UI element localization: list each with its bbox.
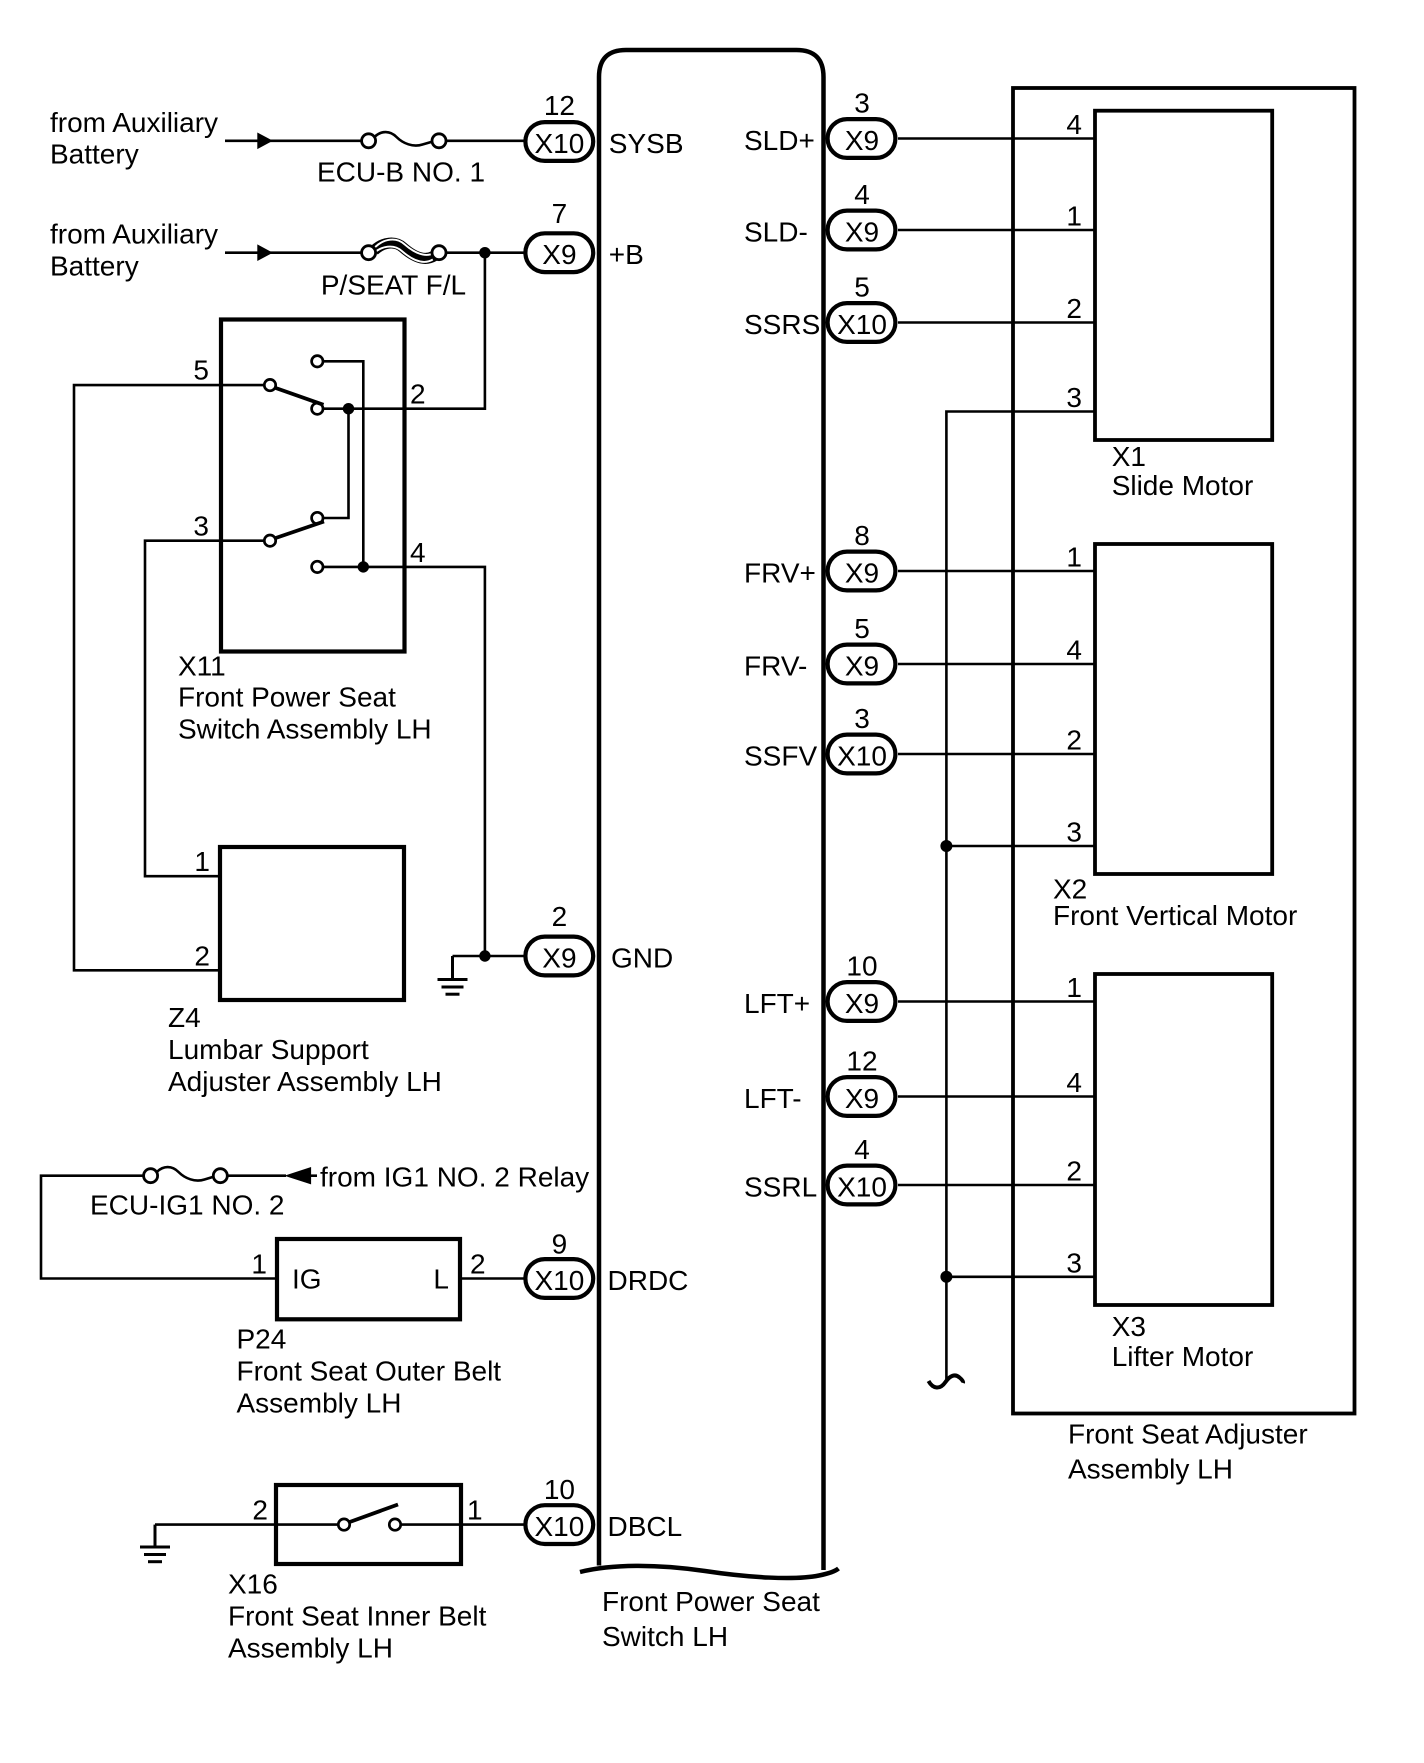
svg-text:X10: X10	[534, 1265, 584, 1296]
connector X10 pin 3 (SSFV)	[828, 703, 896, 773]
wire junction down to SW2 top contact	[323, 409, 349, 518]
node: GND junction	[479, 950, 490, 961]
ECU box: Front Power Seat Switch LH outline	[599, 50, 824, 1570]
svg-text:2: 2	[1066, 1156, 1082, 1187]
svg-text:X16: X16	[228, 1569, 278, 1600]
svg-text:L: L	[433, 1264, 449, 1295]
fusible link P/SEAT F/L	[321, 240, 466, 301]
svg-text:IG: IG	[292, 1264, 322, 1295]
svg-text:Lifter Motor: Lifter Motor	[1112, 1341, 1254, 1372]
wire SLD+ to X1 pin 4	[898, 137, 1095, 140]
svg-text:ECU-B NO. 1: ECU-B NO. 1	[317, 157, 485, 188]
svg-text:ECU-IG1 NO. 2: ECU-IG1 NO. 2	[90, 1190, 284, 1221]
svg-text:P/SEAT F/L: P/SEAT F/L	[321, 270, 466, 301]
svg-text:4: 4	[1066, 109, 1082, 140]
svg-text:4: 4	[854, 179, 870, 210]
belt box P24	[277, 1239, 460, 1319]
wire X2 pin 3 to shield rail	[946, 845, 1095, 848]
switch SW2 contacts	[264, 512, 324, 572]
svg-text:2: 2	[470, 1249, 486, 1280]
svg-text:1: 1	[467, 1495, 483, 1526]
svg-text:X9: X9	[845, 650, 879, 681]
lumbar box Z4	[220, 847, 404, 1000]
svg-text:4: 4	[1066, 1067, 1082, 1098]
connector X9 pin 5 (FRV-)	[828, 613, 896, 683]
svg-text:X10: X10	[837, 740, 887, 771]
motor box X3	[1095, 974, 1272, 1305]
svg-text:8: 8	[854, 520, 870, 551]
svg-text:2: 2	[1066, 293, 1082, 324]
svg-text:9: 9	[552, 1228, 568, 1259]
svg-text:X9: X9	[845, 988, 879, 1019]
connector X10 pin 5 (SSRS)	[828, 272, 896, 342]
svg-text:X10: X10	[534, 128, 584, 159]
svg-text:Slide Motor: Slide Motor	[1112, 470, 1254, 501]
switch SW1 contacts	[264, 356, 323, 415]
wire P24 L to DRDC	[460, 1277, 526, 1280]
label P24 Front Seat Outer Belt Assembly LH	[237, 1324, 502, 1419]
label X16 Front Seat Inner Belt Assembly LH	[228, 1569, 487, 1664]
switch box X11	[221, 320, 405, 652]
svg-text:X9: X9	[845, 557, 879, 588]
svg-text:SSFV: SSFV	[744, 740, 817, 771]
connector X10 pin 9 (DRDC)	[525, 1228, 593, 1298]
svg-text:X10: X10	[837, 1171, 887, 1202]
svg-text:Assembly LH: Assembly LH	[237, 1388, 402, 1419]
node: SW2 junction	[358, 561, 369, 572]
svg-text:Front Vertical Motor: Front Vertical Motor	[1053, 900, 1297, 931]
wire pin3 to Z4 pin1	[145, 541, 264, 877]
svg-text:X9: X9	[542, 942, 576, 973]
node: X2 pin 3 junction	[940, 840, 952, 852]
svg-text:1: 1	[1066, 542, 1082, 573]
label X1 Slide Motor	[1112, 441, 1254, 501]
svg-text:SSRS: SSRS	[744, 309, 820, 340]
svg-text:X1: X1	[1112, 441, 1146, 472]
svg-text:2: 2	[1066, 725, 1082, 756]
svg-text:+B: +B	[609, 239, 644, 270]
svg-text:X9: X9	[845, 1083, 879, 1114]
svg-text:12: 12	[544, 90, 575, 121]
label X2 Front Vertical Motor	[1053, 873, 1297, 931]
svg-text:X9: X9	[845, 216, 879, 247]
svg-text:SLD-: SLD-	[744, 216, 808, 247]
label: from Auxiliary Battery (+B feed)	[50, 219, 218, 282]
svg-text:2: 2	[252, 1495, 268, 1526]
svg-text:12: 12	[846, 1046, 877, 1077]
svg-text:5: 5	[854, 272, 870, 303]
connector X10 pin 4 (SSRL)	[828, 1134, 896, 1204]
svg-text:3: 3	[193, 511, 209, 542]
svg-text:2: 2	[194, 940, 210, 971]
connector X9 pin 2 (GND)	[525, 901, 593, 975]
fuse ECU-IG1 NO. 2	[90, 1167, 284, 1220]
adjuster assembly outer box	[1013, 88, 1355, 1414]
svg-text:DBCL: DBCL	[608, 1511, 683, 1542]
svg-text:Front Power Seat: Front Power Seat	[602, 1586, 820, 1617]
svg-text:2: 2	[410, 379, 426, 410]
arrow: feed direction	[258, 133, 272, 148]
connector X9 pin 7 (+B)	[525, 198, 593, 272]
connector X9 pin 10 (LFT+)	[828, 951, 896, 1021]
belt switch box X16	[276, 1485, 461, 1564]
svg-text:Assembly LH: Assembly LH	[228, 1633, 393, 1664]
wire: IG1 relay feed to P24 pin 1	[41, 1176, 317, 1279]
svg-text:Lumbar Support: Lumbar Support	[168, 1034, 369, 1065]
wire: shield pigtail squiggle end	[929, 1375, 964, 1387]
wire pin5 to Z4 pin2	[74, 385, 264, 970]
wire FRV- to X2 pin 4	[898, 663, 1095, 666]
arrow: from IG1 NO. 2 Relay (pointing left)	[286, 1168, 311, 1184]
svg-text:3: 3	[854, 703, 870, 734]
connector X9 pin 12 (LFT-)	[828, 1046, 896, 1116]
svg-text:3: 3	[1066, 382, 1082, 413]
svg-text:1: 1	[194, 846, 210, 877]
svg-text:7: 7	[552, 198, 568, 229]
svg-text:Front Seat Inner Belt: Front Seat Inner Belt	[228, 1601, 487, 1632]
svg-text:3: 3	[1066, 1247, 1082, 1278]
svg-text:from IG1 NO. 2 Relay: from IG1 NO. 2 Relay	[320, 1162, 589, 1193]
svg-text:3: 3	[854, 88, 870, 119]
label: from Auxiliary Battery (SYSB feed)	[50, 107, 218, 170]
wire SSRS to X1 pin 2	[898, 321, 1095, 324]
svg-text:FRV-: FRV-	[744, 650, 807, 681]
svg-text:SLD+: SLD+	[744, 125, 815, 156]
svg-text:Assembly LH: Assembly LH	[1068, 1454, 1233, 1485]
switch X16 contacts	[338, 1505, 400, 1531]
svg-text:1: 1	[1066, 972, 1082, 1003]
svg-text:LFT+: LFT+	[744, 988, 810, 1019]
svg-text:1: 1	[1066, 201, 1082, 232]
svg-text:SSRL: SSRL	[744, 1171, 817, 1202]
svg-text:Front Power Seat: Front Power Seat	[178, 682, 396, 713]
label X11 Front Power Seat Switch Assembly LH	[178, 651, 432, 745]
svg-text:X3: X3	[1112, 1311, 1146, 1342]
svg-text:DRDC: DRDC	[608, 1265, 689, 1296]
fuse ECU-B NO. 1	[317, 132, 485, 187]
wire: wavy bottom edge of ECU box	[580, 1566, 839, 1578]
svg-text:3: 3	[1066, 817, 1082, 848]
svg-text:X11: X11	[178, 651, 226, 682]
connector X9 pin 4 (SLD-)	[828, 179, 896, 249]
label Z4 Lumbar Support Adjuster Assembly LH	[168, 1002, 442, 1097]
wire SW2 bottom contact to GND rail (pin 4)	[323, 567, 485, 956]
wire X1 pin 3 to shield rail	[946, 412, 1095, 1380]
wire: ground to GND connector	[453, 955, 527, 958]
svg-text:Adjuster Assembly LH: Adjuster Assembly LH	[168, 1066, 442, 1097]
svg-text:2: 2	[552, 901, 568, 932]
svg-text:X9: X9	[845, 125, 879, 156]
label Front Seat Adjuster Assembly LH	[1068, 1419, 1308, 1485]
svg-text:X9: X9	[542, 239, 576, 270]
wire X16 pin 1 to DBCL	[401, 1523, 526, 1526]
svg-text:P24: P24	[237, 1324, 287, 1355]
wire X3 pin 3 to shield rail	[946, 1276, 1095, 1279]
svg-text:SYSB: SYSB	[609, 128, 684, 159]
svg-text:5: 5	[854, 613, 870, 644]
node: +B junction	[479, 247, 490, 258]
svg-text:Switch Assembly LH: Switch Assembly LH	[178, 714, 432, 745]
svg-text:10: 10	[846, 951, 877, 982]
wire FRV+ to X2 pin 1	[898, 570, 1095, 573]
svg-text:Front Seat Adjuster: Front Seat Adjuster	[1068, 1419, 1308, 1450]
label X3 Lifter Motor	[1112, 1311, 1254, 1372]
svg-text:GND: GND	[611, 942, 673, 973]
svg-text:5: 5	[193, 354, 209, 385]
ground symbol (GND)	[438, 956, 468, 994]
svg-text:LFT-: LFT-	[744, 1083, 802, 1114]
wire SW1 lower contact to +B rail (pin 2)	[323, 253, 485, 409]
svg-text:Front Seat Outer Belt: Front Seat Outer Belt	[237, 1356, 502, 1387]
wire SSRL to X3 pin 2	[898, 1184, 1095, 1187]
svg-text:from Auxiliary: from Auxiliary	[50, 219, 218, 250]
svg-text:Battery: Battery	[50, 250, 139, 281]
motor box X1	[1095, 111, 1272, 440]
svg-text:X10: X10	[837, 309, 887, 340]
svg-text:1: 1	[251, 1249, 267, 1280]
label: Front Power Seat Switch LH	[602, 1586, 820, 1652]
svg-text:Switch LH: Switch LH	[602, 1621, 728, 1652]
wire LFT- to X3 pin 4	[898, 1095, 1095, 1098]
svg-text:X10: X10	[534, 1511, 584, 1542]
motor box X2	[1095, 544, 1272, 874]
svg-text:Battery: Battery	[50, 139, 139, 170]
svg-text:4: 4	[410, 537, 426, 568]
node: SW1 junction	[343, 403, 354, 414]
wire SSFV to X2 pin 2	[898, 753, 1095, 756]
wire: battery feed to +B	[225, 251, 526, 254]
svg-text:10: 10	[544, 1474, 575, 1505]
connector X10 pin 12 (SYSB)	[525, 90, 593, 161]
svg-text:from Auxiliary: from Auxiliary	[50, 107, 218, 138]
wire: battery feed to SYSB	[225, 140, 526, 143]
wire: ground to X16 pin 2	[155, 1523, 339, 1526]
svg-text:4: 4	[854, 1134, 870, 1165]
wire LFT+ to X3 pin 1	[898, 1000, 1095, 1003]
wire SW1 top contact to crossover rail	[323, 361, 363, 567]
svg-text:FRV+: FRV+	[744, 557, 816, 588]
wire SLD- to X1 pin 1	[898, 229, 1095, 232]
connector X10 pin 10 (DBCL)	[525, 1474, 593, 1544]
svg-text:4: 4	[1066, 635, 1082, 666]
node: X3 pin 3 junction	[940, 1271, 952, 1283]
connector X9 pin 3 (SLD+)	[828, 88, 896, 158]
pin names IG / L	[292, 1264, 449, 1295]
arrow: feed direction	[258, 245, 272, 260]
svg-text:Z4: Z4	[168, 1002, 201, 1033]
ground symbol (X16)	[140, 1525, 170, 1562]
connector X9 pin 8 (FRV+)	[828, 520, 896, 590]
